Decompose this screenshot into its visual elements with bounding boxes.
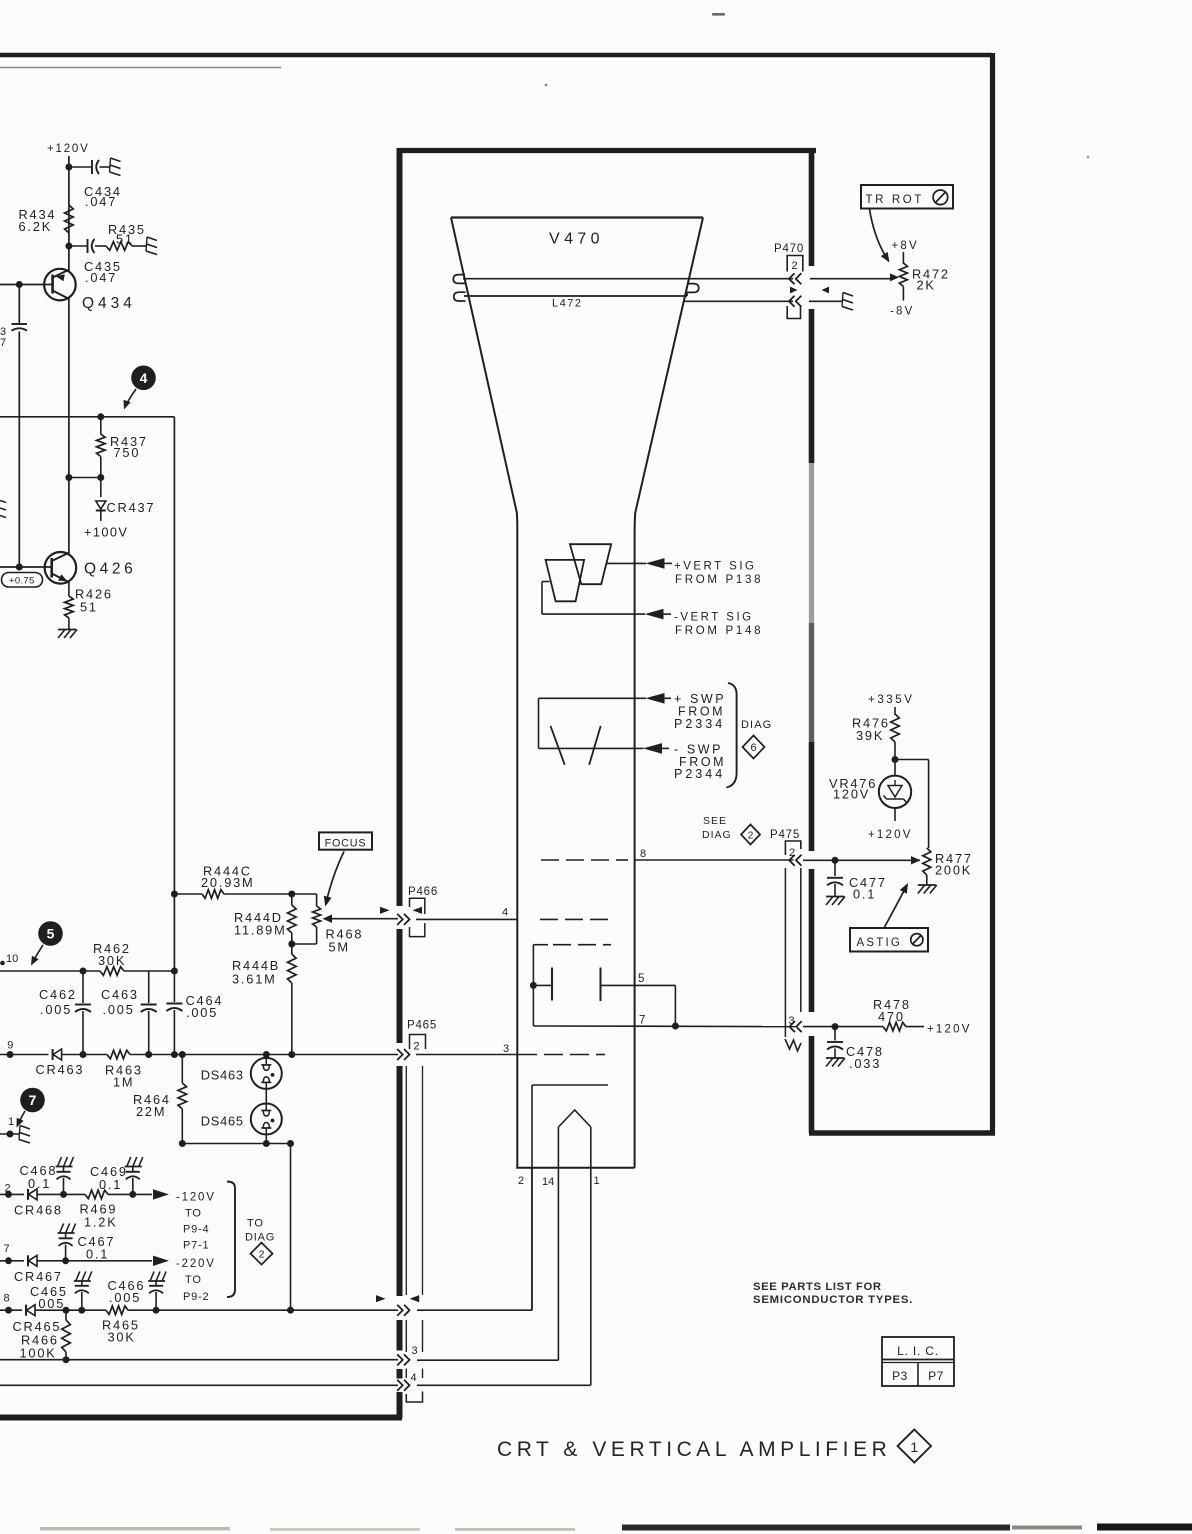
svg-text:P9-4: P9-4 — [183, 1224, 209, 1236]
svg-text:TO: TO — [185, 1208, 202, 1220]
svg-text:0.1: 0.1 — [853, 887, 876, 902]
svg-text:.005: .005 — [103, 1002, 135, 1017]
svg-text:4: 4 — [502, 907, 508, 919]
svg-text:DS463: DS463 — [201, 1068, 244, 1083]
svg-text:P9-2: P9-2 — [183, 1291, 209, 1303]
svg-text:-VERT SIG: -VERT SIG — [674, 612, 754, 624]
svg-text:20.93M: 20.93M — [201, 875, 254, 890]
svg-text:+335V: +335V — [868, 694, 915, 706]
svg-text:CR468: CR468 — [14, 1203, 63, 1218]
svg-text:P475: P475 — [770, 829, 800, 841]
svg-text:30K: 30K — [98, 953, 126, 968]
svg-text:.005: .005 — [40, 1002, 72, 1017]
svg-text:DS465: DS465 — [201, 1114, 244, 1129]
svg-text:51: 51 — [80, 600, 98, 615]
svg-text:FROM P148: FROM P148 — [675, 625, 763, 637]
svg-text:.005: .005 — [33, 1296, 65, 1311]
svg-text:39K: 39K — [856, 728, 884, 743]
svg-text:470: 470 — [878, 1009, 905, 1024]
svg-text:5M: 5M — [329, 940, 350, 955]
svg-text:FROM P138: FROM P138 — [675, 574, 763, 586]
svg-text:1: 1 — [594, 1175, 600, 1187]
svg-text:+100V: +100V — [84, 525, 128, 540]
svg-text:8: 8 — [4, 1293, 10, 1305]
svg-text:+120V: +120V — [47, 143, 90, 155]
svg-text:2: 2 — [414, 1041, 420, 1053]
svg-text:CR437: CR437 — [107, 500, 156, 515]
svg-text:7: 7 — [639, 1015, 645, 1027]
svg-text:4: 4 — [411, 1372, 417, 1384]
svg-text:L. I. C.: L. I. C. — [897, 1344, 939, 1358]
svg-text:+120V: +120V — [927, 1024, 972, 1036]
svg-text:7: 7 — [29, 1092, 37, 1108]
svg-text:.047: .047 — [85, 270, 117, 285]
svg-text:6.2K: 6.2K — [19, 219, 53, 234]
svg-text:5: 5 — [638, 973, 644, 985]
svg-text:SEE: SEE — [703, 815, 727, 827]
svg-text:0.1: 0.1 — [28, 1176, 51, 1191]
svg-text:2: 2 — [748, 831, 754, 842]
svg-text:+0.75: +0.75 — [9, 576, 35, 587]
svg-text:CR463: CR463 — [36, 1062, 85, 1077]
svg-text:750: 750 — [114, 445, 141, 460]
svg-text:0.1: 0.1 — [86, 1247, 109, 1262]
svg-text:-220V: -220V — [176, 1258, 216, 1270]
svg-text:SEMICONDUCTOR TYPES.: SEMICONDUCTOR TYPES. — [753, 1294, 913, 1306]
svg-text:DIAG: DIAG — [702, 829, 732, 841]
svg-text:+VERT SIG: +VERT SIG — [674, 561, 756, 573]
svg-text:TO: TO — [247, 1218, 264, 1230]
svg-text:2: 2 — [518, 1175, 524, 1187]
svg-text:120V: 120V — [833, 787, 870, 802]
svg-text:6: 6 — [750, 742, 756, 754]
svg-text:TR ROT: TR ROT — [866, 194, 924, 206]
svg-text:7: 7 — [0, 337, 6, 349]
svg-text:FOCUS: FOCUS — [325, 837, 367, 849]
svg-text:3: 3 — [503, 1043, 509, 1055]
svg-text:3: 3 — [412, 1345, 418, 1357]
svg-text:3.61M: 3.61M — [232, 972, 277, 987]
svg-text:1: 1 — [8, 1116, 14, 1128]
svg-text:Q426: Q426 — [84, 561, 136, 578]
svg-text:14: 14 — [542, 1176, 554, 1188]
svg-text:P465: P465 — [407, 1020, 437, 1032]
svg-text:22M: 22M — [136, 1104, 166, 1119]
svg-text:V470: V470 — [549, 231, 604, 248]
svg-text:51: 51 — [116, 232, 134, 247]
svg-text:2: 2 — [259, 1249, 265, 1261]
svg-text:0.1: 0.1 — [99, 1177, 122, 1192]
svg-text:DIAG: DIAG — [741, 719, 772, 731]
svg-text:-120V: -120V — [176, 1192, 216, 1204]
svg-text:7: 7 — [4, 1243, 10, 1255]
svg-text:SEE PARTS LIST FOR: SEE PARTS LIST FOR — [753, 1281, 882, 1293]
svg-text:+120V: +120V — [868, 829, 913, 841]
svg-text:2K: 2K — [917, 278, 936, 293]
svg-text:1.2K: 1.2K — [84, 1215, 118, 1230]
svg-text:+8V: +8V — [892, 240, 919, 252]
svg-text:5: 5 — [47, 926, 55, 942]
svg-text:4: 4 — [140, 370, 148, 386]
svg-text:P2344: P2344 — [674, 767, 725, 781]
svg-text:1: 1 — [910, 1439, 918, 1455]
svg-text:CR467: CR467 — [14, 1269, 63, 1284]
svg-text:.047: .047 — [85, 194, 117, 209]
svg-text:.005: .005 — [109, 1290, 141, 1305]
svg-text:10: 10 — [6, 953, 18, 965]
svg-text:100K: 100K — [20, 1346, 57, 1361]
svg-text:P7-1: P7-1 — [183, 1240, 209, 1252]
svg-text:P2334: P2334 — [674, 717, 725, 731]
svg-text:2: 2 — [792, 260, 798, 272]
svg-text:P7: P7 — [928, 1369, 944, 1383]
svg-text:30K: 30K — [108, 1330, 136, 1345]
svg-text:9: 9 — [7, 1040, 13, 1052]
svg-text:L472: L472 — [552, 298, 582, 310]
svg-text:.005: .005 — [186, 1005, 218, 1020]
svg-text:P466: P466 — [408, 886, 438, 898]
svg-text:1M: 1M — [113, 1075, 134, 1090]
svg-text:8: 8 — [640, 848, 646, 860]
svg-text:C462: C462 — [39, 987, 77, 1002]
svg-text:C463: C463 — [101, 987, 139, 1002]
svg-text:-8V: -8V — [890, 306, 915, 318]
svg-text:Q434: Q434 — [82, 295, 136, 312]
svg-text:.033: .033 — [849, 1056, 881, 1071]
svg-text:ASTIG: ASTIG — [857, 937, 903, 949]
svg-text:P3: P3 — [892, 1369, 908, 1383]
svg-text:TO: TO — [185, 1274, 202, 1286]
svg-text:DIAG: DIAG — [245, 1232, 275, 1244]
svg-text:11.89M: 11.89M — [234, 923, 287, 938]
svg-text:P470: P470 — [774, 243, 804, 255]
svg-text:200K: 200K — [935, 863, 972, 878]
svg-text:CRT & VERTICAL AMPLIFIER: CRT & VERTICAL AMPLIFIER — [497, 1438, 891, 1461]
